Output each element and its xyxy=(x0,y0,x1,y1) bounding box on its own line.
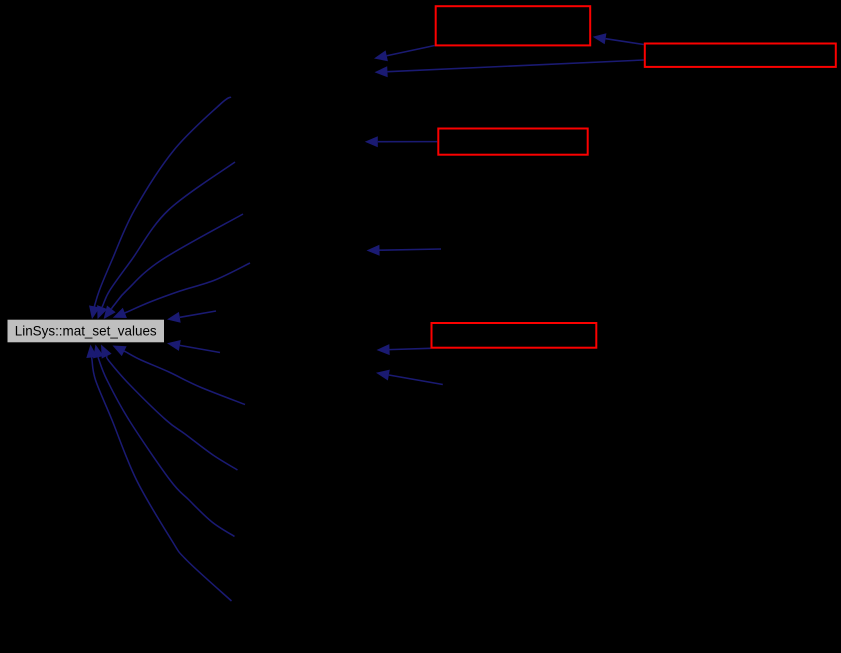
svg-text:LinSys::mat_set_values: LinSys::mat_set_values xyxy=(15,323,157,338)
